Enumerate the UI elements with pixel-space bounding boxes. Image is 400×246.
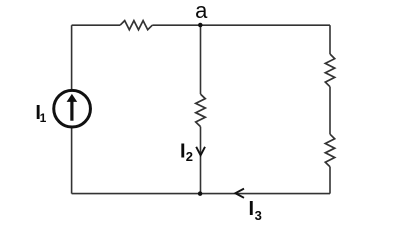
resistor R2 (middle branch) (196, 94, 206, 127)
resistor R1 (top) (120, 21, 152, 30)
current source I1 circle (54, 90, 91, 127)
svg-text:2: 2 (186, 149, 193, 164)
svg-text:1: 1 (40, 111, 47, 125)
label I3 (249, 198, 262, 223)
wire middle vertical upper segment (200, 25, 202, 94)
wire left vertical below source (71, 127, 73, 193)
wire top-left horizontal segment (72, 24, 121, 26)
current I2 arrowhead (down, on middle wire) (196, 147, 205, 156)
wire right vertical bottom segment (329, 167, 331, 194)
wire left vertical above source (71, 25, 73, 90)
current source I1 arrow (67, 94, 78, 121)
resistor R3 (right upper) (325, 54, 334, 87)
current I3 arrowhead (left, on bottom wire) (235, 189, 244, 198)
wire right vertical middle segment (329, 87, 331, 135)
svg-text:a: a (195, 0, 208, 23)
svg-text:I: I (249, 198, 255, 220)
label I2 (180, 140, 193, 164)
label I1 (35, 102, 46, 125)
wire bottom horizontal (72, 193, 330, 195)
svg-text:3: 3 (255, 208, 262, 223)
junction dot (bottom) (198, 191, 203, 196)
wire middle vertical lower segment (200, 127, 202, 194)
wire right vertical top segment (329, 25, 331, 54)
resistor R4 (right lower) (325, 134, 334, 167)
node a junction dot (top) (198, 23, 203, 28)
wire top-right horizontal segment (152, 24, 330, 26)
